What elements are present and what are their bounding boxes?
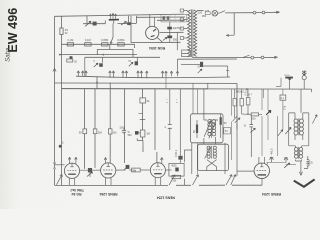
plug arrow bottom [264,56,278,58]
capacitor C28 block [178,156,182,160]
resistor R5 [118,43,124,46]
arrow dark blob [266,110,271,114]
svg-text:,5M: ,5M [97,130,102,134]
resistor R22 [246,98,250,105]
capacitor C2 block [93,22,97,26]
chassis chevron [294,179,315,186]
wire x184.4 vertical [183,150,185,185]
resistor R21 [240,98,243,106]
wire T5 links [267,162,287,164]
chassis arrow a6 [112,71,115,78]
wire plate feed x193 [192,83,194,114]
svg-text:5W: 5W [132,169,136,173]
wire secondary top lead [197,9,204,11]
IF2 core [211,146,213,159]
bottom bus [55,184,263,186]
tube T3 RENS1254 [150,163,165,178]
switch contact TR2 right [312,115,317,124]
capacitor C5 electrolytic [167,27,172,30]
switch S2 [219,11,225,14]
svg-text:W: W [65,31,68,35]
wire tube top pin [150,14,155,26]
wire heater stub left [83,16,105,24]
wire resistor row rail [62,43,135,45]
capacitor C6 electrolytic [167,36,172,39]
wire T3 to box [165,169,171,171]
wire heater rail A [60,54,137,56]
ballast arrows [109,14,111,19]
antenna arrow on feeder [53,68,56,71]
svg-text:220V~: 220V~ [284,75,291,77]
wire x169.8 vertical [169,89,171,150]
wire rail R1 [76,76,230,78]
wire heater rail B [85,56,160,58]
svg-text:4/0,5: 4/0,5 [270,148,274,154]
wire step line [97,44,134,57]
wire x237 low [236,124,238,176]
IF2 tuning arrow [205,147,211,159]
wire IF1 leads [204,89,218,144]
wire rail B drop [85,57,178,76]
speaker coil L2 right [299,147,303,158]
wire mains bottom lead [192,57,251,59]
trimmer arrow C32 [284,163,290,168]
lower verticals group2 [110,83,157,164]
trimmer arrow C23 [87,172,93,177]
L2 core [298,147,300,159]
capacitor C27 on x169.8 [168,125,172,129]
wire T1 left stub [55,164,65,166]
wire x277.5 vertical [277,116,279,156]
wire x180.3 vertical [179,89,181,163]
junction dot B [102,54,104,56]
wire pin stub [303,80,305,90]
wire heater stub right [114,16,136,24]
selector contact blocks [163,16,165,19]
TR1 tap connector lugs [180,9,183,12]
resistor R10 [108,129,112,134]
wire x282 vertical [282,89,284,129]
junction dot A [59,54,61,56]
TR2 core [298,118,300,136]
wire R21 leads [241,89,243,114]
svg-text:0,1M: 0,1M [85,38,91,42]
T5 pins [237,157,265,185]
trimmer arrow C31 [285,127,291,134]
chassis arrow a5 [109,71,112,78]
trimmer arrow C18 [181,64,202,73]
IF1 core [210,119,212,138]
wire x166 vertical [165,74,167,89]
wire x263.7 drop [263,89,265,98]
wire mains bottom cont [254,57,261,59]
T2 pins [104,157,111,185]
IF1 trimmer left [196,125,198,134]
wire C33 stub [139,114,143,133]
IF1 primary coil [208,119,212,135]
terminal P2 [262,11,265,14]
bus switch arrow s6 [169,175,175,185]
wire second vertical [61,16,63,185]
wire rectifier second rail [137,16,186,18]
T3 electrodes [153,169,163,171]
wire x191.8 vertical [184,143,191,174]
switch contact upper x237 [233,116,238,122]
wire x225 vertical [224,143,226,174]
switch S1 arrow [110,37,113,44]
bus switch arrow s7 [193,175,199,185]
resistor R15 [251,113,259,116]
wire R16 leads [304,156,308,169]
selector arrow [226,34,234,36]
chassis arrow a10b [146,71,149,78]
wire T2 to R13 [116,169,132,171]
svg-text:RENS 1204: RENS 1204 [262,192,281,196]
capacitor C22 block [88,168,92,172]
T3 pins [155,157,163,185]
grid resistor box T3 [169,163,184,176]
svg-text:500: 500 [251,116,256,120]
capacitor C26 block [175,168,178,172]
terminal P1 [253,11,256,14]
grid cap arrow g2 [284,157,288,162]
fuse boxes [205,12,210,15]
IF1 secondary coil [212,119,216,135]
chassis arrow a2 [77,71,80,77]
svg-text:RENS 1264: RENS 1264 [99,192,117,196]
resistor R4 [102,43,108,46]
chassis arrow a11 [161,71,164,78]
resistor R11 [140,130,145,137]
resistor R1 [60,28,63,35]
mains selector box [161,14,187,22]
wire mains top lead [218,12,253,14]
wire right vertical [176,32,178,50]
junction dot K1 [59,145,62,148]
svg-text:0,05M: 0,05M [101,38,108,42]
wire T1 to C22 [80,169,101,171]
IF transformer IF1 box [191,114,224,143]
terminal P3 [251,56,254,59]
svg-text:27k: 27k [283,105,287,110]
svg-text:500: 500 [128,134,133,137]
resistor R8 [83,129,87,134]
capacitor C4 block [127,22,131,25]
trimmer arrow C16 [129,62,133,66]
svg-text:RGN 1054: RGN 1054 [149,46,165,50]
arrowhead to chassis [300,172,303,176]
resistor R9 [93,129,97,134]
switch arrow x280 [278,130,283,137]
capacitor C29 [250,125,254,127]
svg-text:RG 3d: RG 3d [72,192,82,196]
junction dot H [247,113,249,115]
TR1 primary taps [182,11,188,54]
mains plug wedge [288,79,291,81]
capacitor C21 [122,128,126,134]
capacitor C15 block [99,63,103,67]
tube T2 RENS1264 [101,163,116,178]
resistor spiral R16 [307,159,309,166]
wire rail R2 [54,83,237,129]
resistor R2 [67,43,73,46]
trimmer arrow C24 [124,166,129,170]
svg-text:4000: 4000 [171,165,177,168]
rail end tick [311,89,313,92]
IF2 primary coil [207,146,210,158]
wire plug stem [289,81,291,89]
ballast resistor heater bar [109,19,119,21]
wire IF2 drops [207,167,217,171]
wire x231 vertical [230,89,232,160]
chassis arrow a4 [85,71,88,76]
T1 electrodes [67,169,77,171]
resistor R14 [172,175,181,178]
chassis arrow a9 [137,71,140,78]
rectifier box left wires [131,16,137,43]
bus switch arrow s8 [226,175,232,185]
capacitor C19 block [200,62,203,67]
svg-text:0,1M 7: 0,1M 7 [245,93,253,96]
TR2 leads [295,89,303,140]
trimmer arrow C9 [163,37,167,40]
svg-text:0,1: 0,1 [281,97,285,100]
wire rectifier bottom rail [131,41,181,43]
svg-text:RENS 1254: RENS 1254 [157,195,175,199]
trimmer arrow C3 [121,21,126,25]
grid stub with tick [226,66,229,77]
wire mid rail [160,31,184,33]
transformer TR1 primary winding [188,10,191,56]
wire mains lead cont [256,12,262,14]
transformer TR1 secondary winding [194,10,197,56]
label box IF1 [224,128,231,134]
capacitor C30 [280,95,286,100]
wire selector drop [233,13,235,36]
T5 electrodes [257,170,267,172]
capacitor C25 block [126,165,130,169]
wire left long vertical [54,16,56,185]
wire R22 leads [247,89,249,114]
wire C22 drop [89,172,91,177]
svg-text:0,05M: 0,05M [117,38,124,42]
wire node H y114 [242,113,262,115]
wire rail R3 [62,88,208,90]
svg-text:0,1M: 0,1M [68,38,74,42]
wire ballast to switch [112,24,114,37]
wire IF1 cap stubs [197,114,221,138]
wire rectifier third rail [157,19,185,21]
resistor R20 [233,98,237,106]
IF1 trimmer right [220,117,222,125]
tube T5 RENS1204 [254,163,269,178]
wire L2 bottom [295,160,301,173]
wire grid line y66 [202,65,228,67]
grid cap arrow g1 [270,157,274,162]
chassis arrow a8 [125,71,128,78]
capacitor C17 block [135,61,138,65]
plug pin crown [302,70,306,75]
speaker coil L2 left [294,147,298,158]
TR2 primary coil [294,119,298,135]
mains plug Netz bar [285,77,293,79]
transformer TR1 core [191,10,193,58]
svg-text:5000: 5000 [120,127,126,130]
capacitor C33 block [135,131,139,135]
svg-text:Saba: Saba [6,47,12,62]
pilot lamp LA1 [212,10,218,16]
chassis arrow a14 [176,71,179,76]
svg-text:90: 90 [79,130,82,134]
switch S3 [243,55,250,57]
tube T1 REN904 [64,163,79,178]
TR2 secondary coil [299,119,303,135]
wire cap vertical [169,22,171,42]
wire heater rail B2 [178,58,238,60]
plug arrow top [265,11,280,13]
selector ticks [165,14,175,22]
wire TR2 to L2 [289,146,309,148]
junction dot rail [96,82,98,84]
T1 pins [68,157,77,185]
chassis arrow a12 [165,71,168,76]
wire rail link [207,83,209,89]
rectifier tube RGN1054 [146,26,159,39]
wire x197.5 vertical [196,89,198,174]
wire x268 vertical [267,89,269,140]
svg-text:T9bI 3sJ: T9bI 3sJ [70,188,84,192]
junction dot C [246,88,248,90]
potentiometer R13 [132,168,141,172]
plug pin circle [302,76,306,80]
IF transformer IF2 box [198,144,229,170]
wire R13 to T3 [140,169,150,171]
lower verticals group1 [85,76,97,168]
capacitor C13 block [70,56,73,59]
wire hum pot [286,163,296,165]
resistor R3 [85,43,91,46]
pickup jack corner [276,78,281,87]
terminal P4 [261,56,264,59]
chassis arrow a3 [81,71,84,76]
switch S4 on x237 [235,118,240,123]
resistor R7 [67,59,73,62]
wire R20 leads [234,89,236,118]
T2 electrodes [103,169,113,171]
trimmer arrow C1 [85,21,91,26]
svg-text:5t: 5t [244,125,246,128]
IF2 secondary coil [213,146,216,158]
tube RGN1054 electrodes [151,29,156,37]
jack J1 break marks [54,162,56,164]
crossed wires under IF2 [207,160,217,167]
bus switch arrow s5 [57,175,63,185]
trimmer arrow C14 [94,63,98,67]
wire x262 vertical [261,89,263,156]
resistor R12 [140,98,146,103]
svg-text:47/0,1: 47/0,1 [174,149,178,157]
svg-text:EW 496: EW 496 [6,8,20,53]
chassis arrow a10 [140,71,143,78]
trimmer arrow C29a [250,128,255,132]
chassis arrow a13 [170,71,173,76]
wire x251 vertical [250,114,252,157]
junction stub x142 [137,120,145,146]
wire x235.5 switch to bus [231,175,236,185]
IF1 tuning arrows [204,121,211,137]
output transformer TR2 frame [289,113,309,146]
chassis arrow a7 [122,71,125,78]
wire top rail [55,14,185,16]
